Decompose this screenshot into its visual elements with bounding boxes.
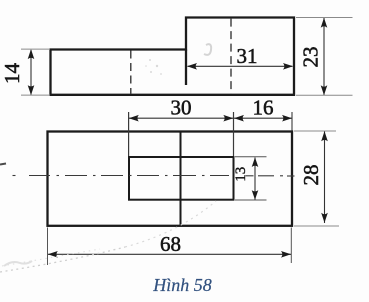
scan scratch upper segment xyxy=(125,201,216,247)
dim 14 extension top xyxy=(21,48,50,50)
dim 23 extension bottom xyxy=(296,94,353,96)
scan smudge diagonal scratch xyxy=(0,247,125,272)
scan smudge bottom left corner xyxy=(4,261,32,266)
dim 68 arrow right xyxy=(281,251,291,258)
svg-text:31: 31 xyxy=(237,44,258,68)
dim 30 extension left xyxy=(128,112,130,156)
dim 30 line xyxy=(129,117,233,119)
dim 13 extension top xyxy=(235,156,267,158)
front view step edge xyxy=(185,50,187,86)
dim 68 extension right xyxy=(290,228,292,264)
scan smudge near 31 xyxy=(204,44,211,55)
dim 31 arrow left xyxy=(187,63,197,70)
front view outline xyxy=(51,18,295,95)
dim 14 line xyxy=(30,50,32,94)
dim 28 line xyxy=(324,132,326,224)
dim 68 line xyxy=(48,253,291,255)
svg-text:14: 14 xyxy=(0,63,24,85)
scan scratch second trace xyxy=(2,249,100,266)
svg-text:68: 68 xyxy=(160,232,181,256)
dim 14 arrow down xyxy=(28,85,35,95)
dim 16 arrow right xyxy=(282,115,292,122)
dim 30 arrow right xyxy=(223,115,233,122)
dim 13 extension bottom xyxy=(235,199,267,201)
dim 28 arrow up xyxy=(321,131,328,141)
scan mark left edge xyxy=(0,164,6,165)
top view step edge projection xyxy=(180,132,182,226)
svg-text:16: 16 xyxy=(253,96,274,120)
scan speckles left rect xyxy=(145,59,162,75)
dim 68 arrow left xyxy=(48,251,58,258)
dim 14 extension bottom xyxy=(21,94,50,96)
dim 23 arrow up xyxy=(321,18,328,28)
dim 14 arrow up xyxy=(28,49,35,59)
dim 30/16 shared extension xyxy=(233,112,235,156)
dim 16 line xyxy=(234,117,292,119)
dim 13 arrow down xyxy=(252,190,259,200)
dim 16 extension right xyxy=(291,112,293,131)
dim 23 extension top xyxy=(296,17,353,19)
hidden line left xyxy=(130,51,132,94)
dim 31 line xyxy=(188,65,293,67)
svg-text:28: 28 xyxy=(299,165,323,186)
svg-text:Hình 58: Hình 58 xyxy=(152,275,212,295)
dim 13 arrow up xyxy=(252,157,259,167)
dim 28 arrow down xyxy=(321,213,328,223)
dim 30 arrow left xyxy=(129,115,139,122)
center line xyxy=(13,175,295,178)
svg-text:23: 23 xyxy=(299,47,323,68)
top view inner rect xyxy=(129,157,234,200)
dim 31 arrow right xyxy=(283,63,293,70)
svg-text:13: 13 xyxy=(233,167,249,182)
dim 23 line xyxy=(323,18,325,95)
dim 28 extension bottom xyxy=(294,225,339,227)
dim 68 extension left xyxy=(47,228,49,266)
dim 28 extension top xyxy=(294,130,336,132)
dim 23 arrow down xyxy=(321,85,328,95)
svg-text:30: 30 xyxy=(171,96,192,120)
dim 13 line xyxy=(254,158,256,200)
top view outer rect xyxy=(48,132,293,226)
hidden line right xyxy=(230,19,232,94)
dim 16 arrow left xyxy=(234,115,244,122)
